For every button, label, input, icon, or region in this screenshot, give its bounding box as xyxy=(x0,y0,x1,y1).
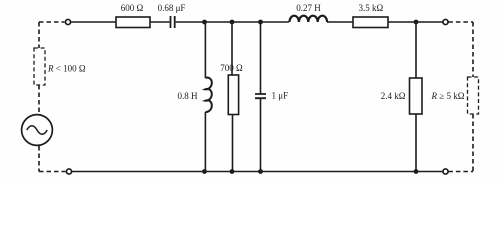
capacitor C 0.68uF xyxy=(171,16,175,28)
svg-text:R < 100 Ω: R < 100 Ω xyxy=(47,64,86,74)
wire right vertical dashed upper xyxy=(472,22,474,77)
node junction bottom A xyxy=(202,169,207,174)
wire branch cap lower xyxy=(260,98,262,171)
terminal output top xyxy=(443,19,448,24)
wire bottom-right dashed segment xyxy=(448,171,473,173)
resistor 700 ohm xyxy=(228,75,238,115)
wire bottom-left dashed segment xyxy=(39,171,66,173)
svg-text:3.5 kΩ: 3.5 kΩ xyxy=(358,3,383,13)
wire left vertical dashed upper xyxy=(38,22,40,48)
wire branch inductor upper xyxy=(204,22,206,78)
svg-text:1 μF: 1 μF xyxy=(272,91,289,101)
resistor 2.4 kohm xyxy=(410,78,423,114)
wire top-left dashed segment xyxy=(39,21,65,23)
inductor 0.27 H xyxy=(290,16,328,22)
wire branch 2.4k lower xyxy=(415,114,417,172)
svg-text:0.8 H: 0.8 H xyxy=(178,91,199,101)
svg-text:600 Ω: 600 Ω xyxy=(121,3,144,13)
source V1 sine wave xyxy=(27,126,47,135)
node junction top A xyxy=(202,20,207,25)
node junction bottom C xyxy=(258,169,263,174)
svg-text:R ≥ 5 kΩ: R ≥ 5 kΩ xyxy=(431,91,465,101)
node junction bottom B xyxy=(230,169,235,174)
wire xyxy=(176,21,289,23)
node junction top B xyxy=(230,20,235,25)
wire branch 2.4k upper xyxy=(415,22,417,78)
terminal input bottom xyxy=(66,169,71,174)
svg-text:0.68 μF: 0.68 μF xyxy=(158,3,186,13)
node junction bottom D xyxy=(414,169,419,174)
wire branch 700 upper xyxy=(231,22,233,75)
svg-text:0.27 H: 0.27 H xyxy=(296,3,321,13)
terminal output bottom xyxy=(443,169,448,174)
wire right vertical dashed lower xyxy=(472,114,474,172)
wire bottom rail xyxy=(72,171,443,173)
wire xyxy=(150,21,170,23)
svg-text:700 Ω: 700 Ω xyxy=(220,63,243,73)
resistor 600 ohm xyxy=(116,17,150,28)
wire left vertical dashed mid xyxy=(38,85,40,114)
node junction top C xyxy=(258,20,263,25)
source V1 circle xyxy=(22,115,53,146)
wire branch 700 lower xyxy=(232,115,234,172)
svg-text:2.4 kΩ: 2.4 kΩ xyxy=(381,91,406,101)
wire xyxy=(388,21,443,23)
terminal input top xyxy=(65,19,70,24)
node junction top D xyxy=(414,20,419,25)
wire xyxy=(327,21,353,23)
wire top rail left xyxy=(71,21,116,23)
load resistor R>=5k dashed box xyxy=(468,77,479,114)
capacitor 1uF xyxy=(255,94,266,98)
wire branch inductor lower xyxy=(204,112,206,172)
wire left vertical dashed lower xyxy=(38,146,40,172)
resistor 3.5 kohm xyxy=(353,17,388,28)
source resistor R<100 dashed box xyxy=(34,48,45,85)
inductor 0.8 H xyxy=(205,78,211,112)
wire top-right dashed segment xyxy=(448,21,473,23)
wire branch cap upper xyxy=(260,22,262,94)
